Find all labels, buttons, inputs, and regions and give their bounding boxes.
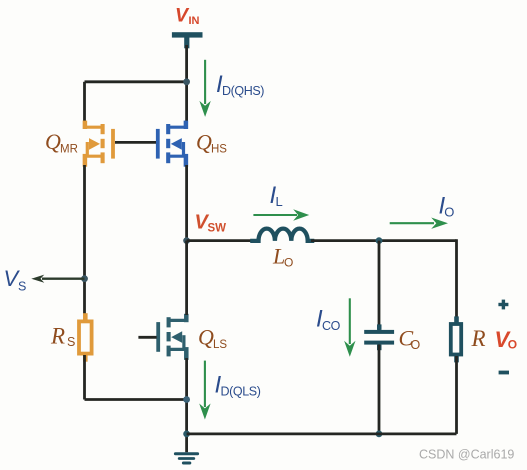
label Q_MR	[45, 129, 78, 156]
svg-text:S: S	[18, 280, 26, 294]
wire: capacitor branch top	[378, 241, 381, 331]
wire: bottom-left horizontal to center rail	[85, 398, 187, 401]
label R_S	[50, 324, 75, 350]
label V_O	[495, 327, 518, 352]
current arrow I_L	[253, 209, 309, 220]
svg-text:L: L	[276, 194, 283, 209]
label Q_LS	[198, 325, 227, 352]
wire: left rail bottom (R_S down)	[83, 355, 86, 400]
label Q_HS	[196, 130, 227, 156]
plus sign	[498, 300, 508, 310]
node V_S junction	[81, 275, 88, 282]
svg-text:D(QLS): D(QLS)	[221, 385, 261, 399]
wire: capacitor branch bottom	[378, 345, 381, 434]
svg-text:Q: Q	[198, 325, 214, 350]
svg-text:S: S	[67, 335, 75, 349]
resistor R	[451, 316, 461, 362]
node V_SW junction	[183, 237, 190, 244]
svg-text:O: O	[508, 338, 517, 352]
resistor R_S	[79, 313, 92, 362]
label I_CO	[316, 306, 341, 334]
wire: left rail top (junction to Q_MR drain)	[83, 82, 86, 124]
label V_S	[4, 266, 27, 294]
svg-text:O: O	[284, 256, 293, 270]
label L_O	[272, 244, 293, 270]
wire: gate link Q_MR to Q_HS	[115, 141, 156, 144]
svg-text:MR: MR	[60, 144, 78, 156]
minus sign	[499, 371, 509, 375]
label V_SW	[195, 212, 227, 235]
wire: Q_LS gate stub	[138, 336, 156, 339]
node junction at capacitor bottom	[376, 431, 383, 438]
svg-text:Q: Q	[196, 130, 212, 155]
svg-text:IN: IN	[189, 15, 200, 27]
wire: top horizontal from junction to left rail	[85, 80, 187, 83]
wire: bottom rail	[187, 432, 457, 435]
svg-text:CO: CO	[322, 319, 341, 333]
svg-text:R: R	[471, 326, 486, 351]
svg-text:CSDN @Carl619: CSDN @Carl619	[419, 448, 514, 462]
wire: right rail down to resistor R	[455, 239, 458, 323]
label I_D(QLS)	[215, 372, 261, 399]
label R	[471, 326, 486, 351]
svg-text:SW: SW	[208, 223, 227, 235]
inductor L_O	[250, 229, 314, 241]
wire: VIN stub down to Q_HS drain	[185, 45, 188, 122]
transistor Q_HS (blue NMOS)	[158, 121, 186, 167]
label I_O	[439, 193, 455, 220]
label I_L	[270, 182, 283, 209]
node junction at capacitor top	[376, 237, 383, 244]
current arrow I_O	[390, 218, 448, 229]
ground	[175, 454, 197, 463]
wire: left rail mid (Q_MR source to R_S)	[83, 165, 86, 321]
node junction at VIN/top-left	[183, 78, 190, 85]
wire: Q_HS source down to V_SW	[185, 165, 188, 241]
wire: V_SW down to Q_LS drain	[185, 241, 188, 315]
svg-text:LS: LS	[213, 339, 227, 351]
arrow to V_S label	[31, 275, 84, 283]
node junction bottom-left branch	[183, 396, 190, 403]
label V_IN	[175, 5, 200, 28]
current arrow I_CO	[344, 298, 355, 357]
capacitor C_O	[364, 324, 394, 350]
wire: Q_LS source down to ground	[185, 358, 188, 452]
svg-text:D(QHS): D(QHS)	[222, 84, 264, 98]
svg-text:HS: HS	[211, 144, 227, 156]
power rail V_IN bar	[172, 32, 203, 48]
transistor Q_LS (teal NMOS)	[158, 314, 186, 360]
wire: inductor to right corner	[311, 239, 457, 242]
current arrow I_D(QLS)	[199, 361, 210, 420]
label I_D(QHS)	[216, 71, 264, 98]
current arrow I_D(QHS)	[199, 60, 210, 117]
label C_O	[399, 326, 421, 353]
wire: resistor R to bottom right corner	[455, 356, 458, 434]
node junction at ground	[183, 431, 190, 438]
svg-text:Q: Q	[45, 129, 61, 154]
wire: V_SW to inductor	[187, 239, 253, 242]
svg-text:R: R	[50, 324, 65, 349]
svg-text:O: O	[411, 338, 421, 352]
svg-text:O: O	[444, 205, 454, 220]
watermark	[419, 448, 514, 462]
transistor Q_MR (orange, mirrored NMOS)	[85, 121, 113, 167]
